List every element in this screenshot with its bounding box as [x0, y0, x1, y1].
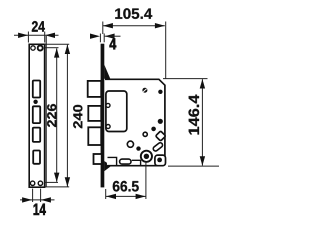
- dim 4 extension right: [103, 34, 105, 43]
- screw A slotted: [142, 88, 147, 93]
- dim 240 text: [73, 105, 82, 128]
- screw B: [158, 90, 162, 94]
- circle H: [127, 141, 133, 147]
- dim 66.5 extension left: [105, 189, 107, 199]
- plate L dot: [157, 158, 162, 163]
- dim 24 text: [32, 21, 45, 32]
- dim 105.4 text: [115, 8, 152, 19]
- dot I: [136, 146, 140, 150]
- dim 66.5 arrow right: [136, 194, 146, 199]
- dim 146.4 arrow up: [200, 79, 205, 89]
- cutout 3: [33, 128, 40, 142]
- dim 14 arrow left: [22, 197, 32, 202]
- edge circle 1: [106, 103, 110, 107]
- bottom screw hole left: [30, 181, 34, 185]
- dim 105.4 extension right: [165, 22, 167, 79]
- dot C: [158, 119, 163, 124]
- dim 240 arrow down: [65, 177, 70, 187]
- case bottom bracket step: [132, 160, 141, 165]
- dim 105.4 line: [103, 25, 165, 27]
- block 2 side view: [88, 106, 101, 121]
- dim 14 arrow right: [41, 197, 51, 202]
- dim 146.4 line: [201, 79, 203, 165]
- cylinder center J: [144, 154, 149, 159]
- cutout 4: [33, 151, 40, 164]
- dim 24 arrow left: [18, 33, 28, 38]
- dim 240 arrow up: [65, 45, 70, 55]
- top screw hole left: [31, 46, 35, 50]
- dim 240 extension bottom: [44, 186, 69, 188]
- dim 240 line: [66, 45, 68, 187]
- cylinder ring J: [141, 151, 152, 162]
- dim 146.4 extension top: [163, 78, 208, 80]
- dim 105.4 extension left: [102, 22, 104, 35]
- dim 226 extension bottom: [44, 181, 58, 183]
- dim 226 arrow up: [54, 48, 59, 58]
- dim 4 arrow right: [105, 34, 115, 39]
- dot E: [151, 127, 156, 132]
- dim 66.5 text: [113, 181, 139, 192]
- latch cutout: [33, 81, 40, 98]
- deadbolt cutout: [33, 106, 40, 123]
- bottom gusset: [104, 161, 111, 171]
- case bottom-left step: [108, 157, 117, 165]
- dim 14 line: [20, 199, 55, 201]
- dim 146.4 extension bottom: [168, 165, 219, 167]
- block 3 side view: [88, 127, 101, 145]
- edge reference line: [45, 36, 47, 187]
- dim 105.4 arrow right: [155, 23, 165, 28]
- latch block side view: [88, 81, 102, 97]
- bottom screw hole right: [38, 181, 42, 185]
- diamond G: [156, 131, 166, 141]
- dim 14 text: [34, 204, 46, 215]
- dim 66.5 arrow left: [106, 194, 116, 199]
- dim 226 text: [47, 104, 56, 127]
- plate L: [155, 155, 166, 166]
- dim 4 arrow left: [90, 34, 100, 39]
- top gusset: [104, 65, 110, 79]
- dim 226 arrow down: [54, 173, 59, 183]
- dim 24 extension left: [27, 32, 29, 43]
- dim 66.5 line: [106, 195, 146, 197]
- block 4 side view: [94, 154, 102, 164]
- faceplate front view: [29, 44, 44, 187]
- dim 4 tail right: [105, 35, 121, 37]
- dim 4 text: [110, 38, 117, 49]
- dim 14 extension right: [40, 189, 42, 202]
- dim 24 arrow right: [45, 33, 55, 38]
- circle F: [143, 132, 147, 136]
- dim 66.5 extension right: [145, 162, 147, 199]
- edge circle 2: [106, 125, 110, 129]
- slot M: [120, 159, 131, 164]
- dim 240 extension top: [45, 43, 70, 45]
- big internal cutout: [106, 91, 127, 132]
- fixing dot: [33, 100, 37, 104]
- lock case outline: [105, 79, 165, 165]
- dim 146.4 text: [189, 95, 200, 135]
- dim 146.4 arrow down: [200, 156, 205, 166]
- dim 226 line: [56, 48, 58, 181]
- dim 4 extension left: [99, 34, 101, 43]
- slot K: [152, 142, 163, 152]
- dim 226 extension top: [45, 47, 59, 49]
- top screw hole right: [38, 46, 43, 51]
- dim 24 line: [14, 34, 59, 36]
- faceplate side bar: [101, 44, 105, 188]
- dim 14 extension left: [32, 189, 34, 202]
- dim 105.4 arrow left: [103, 23, 113, 28]
